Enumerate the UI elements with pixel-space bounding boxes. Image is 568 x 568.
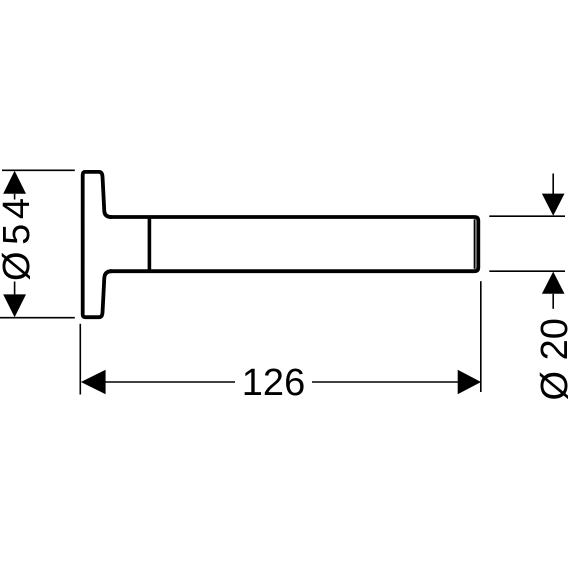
tube outline xyxy=(111,217,479,271)
dim Ø54 bottom arrow xyxy=(3,294,26,317)
dim 126 line left segment xyxy=(105,381,235,383)
dim 126 left arrow xyxy=(81,370,106,394)
svg-text:126: 126 xyxy=(242,362,305,404)
dim 126 right extension line xyxy=(480,281,482,392)
dim 126 right arrow xyxy=(458,370,481,394)
dim Ø54 top extension line xyxy=(2,169,75,171)
dim Ø20 lower leader line xyxy=(552,294,554,309)
dim Ø20 upper leader line xyxy=(552,174,554,196)
dim Ø54 bottom extension line xyxy=(0,317,75,319)
dim Ø54 top arrow xyxy=(3,171,26,194)
dim Ø20 bottom arrow xyxy=(542,272,565,294)
tube end cap inner line xyxy=(474,219,476,268)
dim 126 left extension line xyxy=(79,324,81,395)
svg-text:4: 4 xyxy=(0,198,38,219)
dim Ø20 bottom extension line xyxy=(489,270,565,272)
svg-text:5: 5 xyxy=(0,224,38,245)
dim Ø20 top extension line xyxy=(489,215,565,217)
dim 126 line right segment xyxy=(312,381,458,383)
wall flange (escutcheon) outline xyxy=(83,172,112,317)
dim Ø20 top arrow xyxy=(542,194,565,216)
svg-text:Ø 20: Ø 20 xyxy=(534,318,568,400)
tube joint line xyxy=(148,217,152,270)
dim Ø54 label xyxy=(0,198,38,281)
svg-text:Ø: Ø xyxy=(0,251,38,281)
